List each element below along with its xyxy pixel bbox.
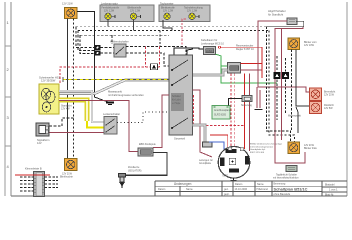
wire: black dashed bus y30.5 — [78, 30, 269, 32]
wire: red into terminal strip — [15, 174, 50, 176]
terminal strip Klemmleiste — [25, 167, 45, 197]
wire: maroon pair with ground right of fuse — [255, 87, 263, 110]
svg-text:SLPZ 8305: SLPZ 8305 — [214, 114, 227, 117]
label magneto right — [250, 143, 283, 154]
ELBA box — [201, 39, 225, 55]
svg-text:Datum: Datum — [235, 183, 242, 186]
svg-text:Grundplatte kpl.: Grundplatte kpl. — [250, 148, 266, 151]
wire: dotted mechanical link — [117, 112, 169, 123]
wire: connector ground drop to chassis point — [77, 12, 108, 103]
handlebar switch Lenkerschalter — [103, 112, 120, 134]
wire: red dashed right of switch to magneto — [194, 95, 245, 125]
svg-text:Datum: Datum — [158, 188, 165, 191]
wire: yellow-black dashed horizontal — [63, 77, 169, 82]
svg-text:12V 10W: 12V 10W — [304, 44, 315, 47]
wire: maroon standlicht left branch to brake light — [258, 21, 310, 92]
svg-text:12V 1,2W: 12V 1,2W — [130, 11, 141, 13]
wire bundle: harness headlight to switch — [59, 80, 169, 94]
wire: maroon right of switch to magneto — [193, 90, 213, 157]
wire: red and maroon through fuse to magneto — [245, 74, 250, 152]
svg-text:1 von 1: 1 von 1 — [329, 188, 338, 192]
svg-text:Steuerteil: Steuerteil — [174, 137, 185, 141]
headlight box Scheinwerfer — [39, 76, 72, 115]
wire: maroon from regulator right lower — [241, 69, 263, 71]
label magneto left — [199, 159, 213, 165]
magneto ground — [222, 176, 237, 181]
svg-text:Leitungen zur: Leitungen zur — [199, 159, 213, 162]
lamp Tachobeleuchtung — [184, 7, 203, 20]
blinker rear-right lamp (orange box) — [288, 142, 318, 154]
wire: black from ELBA to switch — [174, 48, 204, 55]
svg-text:12V: 12V — [37, 141, 42, 145]
svg-text:EBR Zündspule: EBR Zündspule — [139, 143, 156, 146]
wire: dashed diode columns — [277, 56, 286, 120]
svg-text:Blinker links: Blinker links — [304, 147, 318, 150]
title block text — [158, 182, 338, 196]
svg-text:für Standlicht: für Standlicht — [268, 12, 283, 16]
svg-text:12V 21W: 12V 21W — [324, 94, 335, 97]
blinker front-right lamp (orange box) — [288, 38, 317, 50]
wire: red dashed regulator down to magneto — [231, 74, 235, 147]
parking light switch connector — [287, 18, 297, 25]
wire: dashed cluster drops to connector — [76, 27, 95, 54]
svg-text:Blinkleuchte: Blinkleuchte — [60, 176, 74, 179]
svg-text:12V 4W: 12V 4W — [61, 108, 70, 111]
svg-text:78/07: 78/07 — [222, 176, 228, 178]
terminal strip pin stubs — [20, 177, 58, 191]
svg-text:E8302 elektronische Zündanlage: E8302 elektronische Zündanlage — [250, 143, 283, 146]
svg-text:Regler 8 057 10: Regler 8 057 10 — [236, 48, 254, 51]
wire bundle: grey from switch to connector at magneto — [193, 125, 206, 142]
svg-text:gez.: gez. — [224, 188, 229, 191]
wire: green from ELBA down and right — [216, 54, 278, 83]
tachometer panel grey box — [159, 2, 210, 22]
wire: white-grey headlight to switch — [59, 91, 104, 122]
svg-text:Sicherung: Sicherung — [241, 104, 252, 107]
svg-text:Blinkkontrolle: Blinkkontrolle — [128, 7, 142, 10]
wire: dashed horn up to blinker line — [50, 118, 74, 126]
lamp Blinkkontrolle2 — [161, 7, 175, 20]
wire: grey dashed bus y25.5 — [76, 26, 267, 28]
svg-text:Tachobeleuchtung: Tachobeleuchtung — [184, 7, 203, 10]
svg-text:Anschlussplan: Anschlussplan — [214, 109, 230, 112]
svg-text:Blatt-Nr.: Blatt-Nr. — [325, 193, 334, 196]
wire: maroon from regulator down right band — [281, 28, 283, 140]
wire: black from fuse left — [229, 99, 243, 106]
svg-text:Massepunkt: Massepunkt — [108, 90, 122, 94]
svg-text:Schaltplan B51/1C: Schaltplan B51/1C — [274, 186, 308, 191]
svg-text:12V 35/35W: 12V 35/35W — [41, 79, 56, 83]
ground bar Massepunkt left — [106, 103, 114, 105]
wire: red short from connector to magneto — [210, 135, 228, 147]
wire: red dashed horizontal y67 to headlight — [60, 67, 160, 84]
wire: maroon standlicht to coil column — [59, 101, 138, 152]
svg-text:mit Drehstromgenerator: mit Drehstromgenerator — [250, 145, 273, 148]
svg-text:mit Intervallwischfunktion: mit Intervallwischfunktion — [273, 177, 299, 180]
label Massepunkt left — [108, 90, 144, 98]
ignition coil EBP Zündspule — [138, 143, 156, 156]
wire: black dashed horizontal y46.5 to switch — [126, 47, 186, 56]
blinker front-left lamp (orange box) — [62, 2, 77, 19]
wire: maroon rear-run left branch — [275, 27, 305, 163]
svg-text:Name: Name — [186, 188, 193, 191]
svg-text:12V 21W: 12V 21W — [62, 2, 73, 6]
wire: dashed bus segment y35 — [80, 35, 169, 44]
svg-text:Grundplatte: Grundplatte — [199, 162, 212, 165]
wire: blue short from connector to magneto — [209, 142, 224, 150]
svg-text:Lenkerschalter: Lenkerschalter — [103, 112, 120, 116]
svg-text:Massepunkt: Massepunkt — [288, 115, 301, 118]
daytime switch connector — [273, 166, 299, 180]
svg-text:Name: Name — [257, 183, 264, 186]
tail light (salmon box) — [310, 102, 335, 114]
wire: red dashed drops x145.5 x159.5 — [146, 47, 160, 68]
svg-text:12V 5W: 12V 5W — [324, 107, 333, 110]
wire: front-left blinker solid down — [67, 19, 69, 159]
wire: red from ELBA to right — [219, 46, 263, 48]
diode box 1 — [274, 72, 281, 79]
wire: connector to dimmer dashed — [101, 48, 115, 54]
svg-text:Änderungen: Änderungen — [174, 182, 192, 186]
lamp Blinkkontrolle — [128, 7, 142, 20]
wire: maroon from switch left down to coil — [153, 95, 169, 147]
blinker rear-left lamp (orange box) — [60, 159, 77, 179]
wire: red down from ELBA run — [261, 47, 263, 78]
diode box 2 — [282, 72, 289, 79]
diode check symbol on red run — [151, 64, 158, 70]
svg-text:Klemmleiste B: Klemmleiste B — [25, 167, 42, 171]
svg-text:Fernlichtkontrolle: Fernlichtkontrolle — [102, 7, 120, 10]
wire: front-right blinker dashed pin — [291, 50, 293, 132]
spark plug Zündkerze — [119, 166, 142, 188]
wire bundle: harness switch to regulator — [193, 70, 228, 75]
svg-text:12V 1,2W: 12V 1,2W — [163, 11, 174, 13]
light switch tall box — [169, 55, 193, 141]
svg-text:Abgriff Schalter: Abgriff Schalter — [268, 9, 286, 13]
svg-text:u. Hupe: u. Hupe — [172, 102, 181, 105]
horn Signalhorn — [36, 123, 50, 145]
magneto circle Lichtmaschine — [218, 147, 250, 179]
svg-text:Hillebrand: Hillebrand — [257, 188, 269, 191]
wire: red from regulator right to rear maroon — [241, 63, 263, 65]
connector at magneto — [203, 142, 213, 147]
border frame bottom edge — [11, 195, 347, 197]
border frame right edge — [346, 2, 348, 196]
svg-text:mit Fahrzeugmasse verbunden: mit Fahrzeugmasse verbunden — [108, 93, 144, 97]
wire: black hook into switch top — [187, 49, 193, 55]
svg-text:(ISOLATOR): (ISOLATOR) — [128, 169, 142, 172]
svg-text:8307.12/1-100: 8307.12/1-100 — [250, 152, 265, 154]
svg-text:Blattzahl: Blattzahl — [325, 183, 335, 186]
svg-text:Tagfahrlicht-Schalter: Tagfahrlicht-Schalter — [276, 174, 297, 177]
wire: maroon horn to handlebar switch — [50, 132, 105, 134]
handlebar panel grey box — [100, 2, 154, 22]
svg-text:Blinkkontrolle: Blinkkontrolle — [161, 7, 175, 10]
wire: front-left blinker dashed down — [73, 19, 75, 159]
svg-text:13.10.2006: 13.10.2006 — [235, 188, 248, 191]
svg-text:gepr.: gepr. — [224, 193, 230, 196]
wire: lamp3 bracket to bus — [163, 20, 172, 31]
svg-text:ELBA: ELBA — [206, 49, 213, 53]
title block table — [155, 181, 347, 196]
svg-text:Abblendschalter: Abblendschalter — [110, 40, 129, 44]
wire: lamp1 stub to bus — [107, 20, 109, 27]
wire: front-right blinker ground pin — [296, 50, 310, 107]
brake light (salmon box) — [310, 88, 336, 101]
svg-text:12V 1,2W: 12V 1,2W — [104, 11, 115, 13]
dimmer switch (Abblendschalter) — [110, 40, 129, 58]
wire: yellow headlight to switch — [59, 100, 104, 128]
svg-text:Benennung: Benennung — [274, 184, 286, 186]
wire: lamp2 stub to bus — [133, 20, 135, 31]
wire: maroon standlicht right branch down to rear blinker — [267, 21, 304, 27]
wire: dashed bus right corners down — [267, 27, 295, 142]
wire: dashed drop x160 — [159, 31, 161, 47]
wire: red dashed from lamp4 down — [182, 19, 186, 47]
svg-text:Lenkerange MCS 10: Lenkerange MCS 10 — [201, 42, 225, 45]
wire: dashed from dimmer lower to switch — [126, 53, 169, 66]
wire: coil to spark plug — [124, 153, 167, 176]
label Massepunkt right — [288, 107, 301, 133]
left margin strip — [5, 2, 11, 196]
svg-text:12V 1,2W: 12V 1,2W — [187, 11, 198, 13]
lamp Fernlichtkontrolle — [102, 7, 120, 20]
connector plug pair — [95, 45, 101, 56]
parking light switch label — [268, 9, 286, 16]
fuse Sicherung — [241, 96, 252, 108]
regulator box Regler — [228, 45, 255, 74]
electronic ignition green box — [212, 106, 230, 120]
svg-text:ohne Baustufe: ohne Baustufe — [274, 192, 291, 196]
